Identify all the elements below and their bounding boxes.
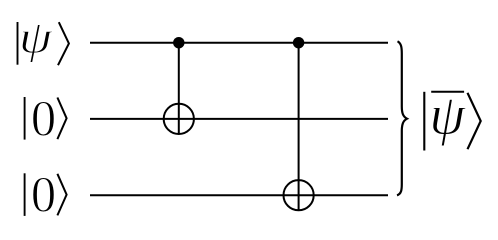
CNOT 1 control dot on qubit 1 bbox=[173, 37, 184, 48]
wire qubit 1 bbox=[90, 42, 388, 44]
angle bracket of output ket bbox=[468, 93, 481, 149]
ket bar | of |0> row3 bbox=[24, 173, 26, 216]
svg-text:ψ: ψ bbox=[429, 84, 466, 147]
ket bar | of |psi> bbox=[17, 22, 19, 65]
output label ket |psi-bar> bbox=[424, 84, 480, 151]
CNOT 1 target circle on qubit 2 bbox=[164, 104, 194, 134]
CNOT 2 vertical wire bbox=[298, 43, 300, 211]
wire qubit 3 bbox=[90, 194, 388, 196]
angle bracket of |0> row3 bbox=[57, 174, 66, 216]
CNOT 2 target circle on qubit 3 bbox=[284, 180, 314, 210]
svg-text:0: 0 bbox=[31, 90, 56, 146]
svg-text:ψ: ψ bbox=[19, 11, 53, 63]
ket bar | of |0> row2 bbox=[24, 97, 26, 140]
qubit label ket |psi> row 1 bbox=[18, 11, 69, 66]
wire qubit 2 bbox=[90, 118, 388, 120]
CNOT 1 vertical wire bbox=[178, 43, 180, 134]
right curly brace bbox=[397, 41, 407, 195]
CNOT 2 control dot on qubit 1 bbox=[293, 37, 304, 48]
ket bar | of output bbox=[423, 92, 425, 151]
angle bracket of |psi> bbox=[58, 22, 69, 65]
svg-text:0: 0 bbox=[31, 167, 56, 223]
angle bracket of |0> row2 bbox=[57, 98, 66, 140]
overline of psi-bar bbox=[431, 91, 464, 93]
qubit label ket |0> row 3 bbox=[25, 167, 67, 223]
qubit label ket |0> row 2 bbox=[25, 90, 67, 146]
